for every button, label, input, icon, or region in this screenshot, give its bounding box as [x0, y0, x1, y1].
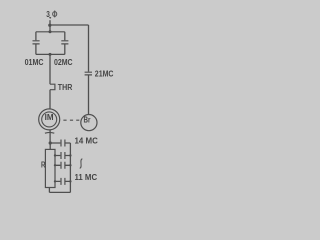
wire right branch upper stub	[64, 32, 66, 41]
contactor contact 02MC bars	[61, 41, 68, 44]
wire feed vertical from 3φ	[49, 20, 51, 32]
node junction row4 left	[54, 180, 56, 182]
wire right branch lower stub	[64, 44, 66, 54]
wire row4 horizontal 11MC	[55, 180, 70, 182]
svg-text:R: R	[41, 159, 46, 169]
contactor contact 11MC bars	[61, 178, 65, 185]
wire main vertical to thermal relay	[49, 54, 51, 84]
rotor leads bar below motor	[45, 131, 54, 134]
label 3φ phi ring	[53, 12, 57, 17]
mechanical link dashed wire motor to brake	[63, 119, 79, 121]
node junction row3 left	[54, 164, 56, 166]
wire right bus vertical	[69, 143, 71, 192]
svg-text:02MC: 02MC	[54, 58, 73, 67]
svg-text:01MC: 01MC	[25, 58, 44, 67]
wire right branch vertical lower	[88, 76, 90, 115]
svg-text:11 MC: 11 MC	[75, 173, 98, 182]
wire bottom horizontal	[49, 191, 70, 193]
brake Br circle	[81, 115, 97, 131]
label 3φ phi stem	[54, 11, 56, 18]
svg-text:THR: THR	[58, 83, 73, 92]
svg-text:Br: Br	[84, 116, 91, 125]
wire parallel-pair bottom bar	[36, 53, 65, 55]
node junction rotor	[49, 141, 52, 144]
node junction row4 right	[69, 180, 71, 182]
node junction pair top	[49, 30, 52, 33]
contactor contact 21MC bars	[85, 72, 92, 75]
wire rotor junction to resistor	[49, 143, 51, 149]
svg-text:IM: IM	[45, 113, 54, 122]
contactor contact 01MC bars	[33, 41, 40, 44]
motor IM inner circle	[42, 112, 57, 127]
svg-text:14 MC: 14 MC	[75, 137, 99, 146]
node 3-phase source tick	[49, 17, 51, 19]
contactor contact 12MC bars	[61, 162, 65, 169]
resistor R box	[45, 149, 55, 187]
svg-text:3: 3	[46, 10, 50, 19]
wire row3 horizontal	[55, 164, 70, 166]
wire top horizontal to right branch	[50, 24, 89, 26]
wire main vertical to motor	[49, 90, 51, 109]
svg-text:21MC: 21MC	[95, 69, 114, 78]
contactor contact 13MC bars	[61, 152, 65, 159]
wire resistor bottom lead	[48, 188, 50, 193]
wire left branch lower stub	[35, 44, 37, 54]
motor IM outer circle	[39, 109, 60, 130]
wire parallel-pair top bar	[36, 31, 65, 33]
contactor contact 14MC bars	[61, 140, 65, 147]
node junction pair bottom	[49, 53, 52, 56]
wire row1 horizontal 14MC	[50, 142, 70, 144]
node junction row2 left	[54, 154, 56, 156]
label omitted-steps squiggle	[80, 159, 83, 168]
wire right branch vertical upper	[88, 25, 90, 72]
node junction feed	[48, 24, 51, 27]
node junction row3 right	[69, 164, 71, 166]
wire row2 horizontal	[55, 155, 70, 157]
thermal relay THR heater bump	[50, 84, 55, 90]
wire left branch upper stub	[35, 32, 37, 41]
wire below motor	[49, 130, 51, 143]
node junction row2 right	[69, 154, 71, 156]
